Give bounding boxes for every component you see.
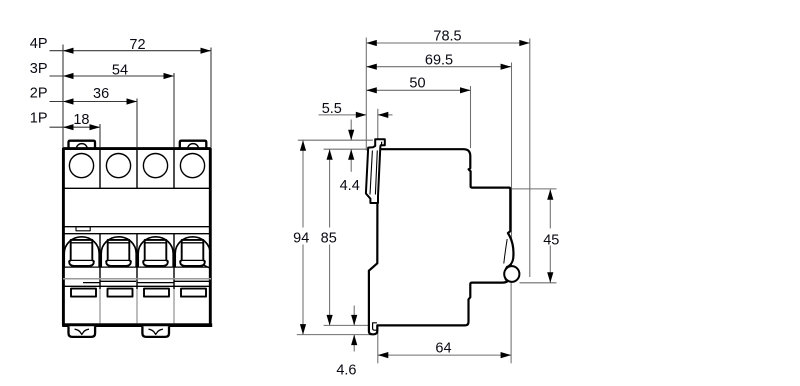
extension horizontal toggle top y=140.2 — [298, 139, 373, 141]
marking segment pole1 — [83, 282, 100, 284]
pole divider mid x=174 — [173, 234, 175, 289]
extension vertical toggle tip x=366.3 — [365, 38, 367, 151]
dim line 78.5 — [366, 42, 530, 44]
horizontal line label band bottom — [63, 233, 211, 235]
dim line 54 — [50, 75, 175, 77]
svg-text:4P: 4P — [30, 36, 48, 52]
DIN clip loop — [504, 266, 519, 282]
dim line 94 upper — [302, 140, 304, 227]
svg-text:36: 36 — [93, 86, 109, 102]
4.4 lower arrow line — [350, 149, 352, 172]
dim line 85 lower — [329, 245, 331, 326]
toggle arch pole4 — [175, 237, 210, 267]
terminal window pole1 — [71, 289, 96, 297]
dim line 45 lower — [549, 246, 551, 283]
top mounting clip left — [69, 141, 96, 149]
pole divider lower gray x=100 — [99, 289, 101, 325]
extension line x=174 (3P) — [173, 73, 175, 147]
horizontal line below circles — [63, 187, 211, 189]
front clip foot notch — [373, 323, 377, 330]
toggle handle pole1 — [69, 240, 94, 266]
svg-text:4.4: 4.4 — [340, 178, 360, 194]
svg-text:45: 45 — [543, 233, 559, 249]
extension vertical x=511.1 (69.5) — [511, 63, 513, 271]
bottom clip left — [69, 326, 96, 337]
gray band line — [63, 278, 211, 280]
extension horizontal 45 top y=188.9 — [512, 188, 557, 190]
svg-text:85: 85 — [321, 230, 337, 246]
extension horizontal body top y=149.2 — [324, 148, 377, 150]
svg-text:50: 50 — [409, 76, 425, 92]
dim line 85 upper — [329, 149, 331, 227]
terminal screw circle pole1 — [69, 154, 93, 178]
dim line 18 — [50, 126, 101, 128]
dim line 69.5 — [366, 66, 511, 68]
horizontal line label band top — [63, 226, 211, 228]
dim line 45 upper — [549, 189, 551, 228]
bottom clip right — [142, 326, 169, 337]
extension line x=137 (2P) — [136, 99, 138, 148]
svg-text:3P: 3P — [30, 61, 48, 77]
extension horizontal 45 bottom y=282.8 — [520, 282, 557, 284]
pole divider lower gray x=174 — [173, 289, 175, 325]
pole divider mid x=100 — [99, 234, 101, 289]
top mounting clip right — [180, 141, 207, 149]
marking segment pole3 — [138, 282, 175, 284]
label window — [76, 227, 90, 231]
toggle arch pole3 — [138, 237, 173, 267]
terminal screw circle pole4 — [180, 154, 204, 178]
extension vertical x=470.5 (50) — [470, 86, 472, 148]
terminal screw circle pole2 — [106, 154, 130, 178]
toggle handle pole2 — [106, 240, 131, 266]
dim line 72 — [50, 50, 212, 52]
dim line 36 — [50, 101, 138, 103]
breaker side body outline — [369, 149, 514, 334]
svg-text:18: 18 — [73, 112, 89, 128]
svg-text:94: 94 — [293, 230, 309, 246]
toggle handle pole3 — [143, 240, 168, 266]
pole divider upper x=137 — [136, 149, 138, 188]
4.6 upper arrow line — [353, 306, 355, 326]
svg-text:1P: 1P — [30, 110, 48, 126]
dim line 5.5 left tail — [319, 114, 367, 116]
svg-text:4.6: 4.6 — [336, 362, 356, 378]
terminal window pole3 — [144, 289, 169, 297]
pole divider upper x=100 — [99, 149, 101, 188]
4.4 upper arrow line — [350, 120, 352, 141]
breaker body outline — [63, 149, 210, 325]
svg-text:78.5: 78.5 — [433, 28, 461, 44]
svg-text:64: 64 — [435, 340, 451, 356]
terminal window pole4 — [181, 289, 206, 297]
dim line 94 lower — [302, 245, 304, 335]
extension vertical front face x=377.8 upper — [377, 109, 379, 158]
pole divider mid x=137 — [136, 234, 138, 289]
4.6 lower arrow line — [353, 335, 355, 352]
arrowheads side view — [366, 40, 377, 46]
pole divider upper x=174 — [173, 149, 175, 188]
right edge notch diagonal — [203, 250, 210, 268]
toggle inner line right — [375, 151, 377, 195]
extension horizontal body bottom y=325.4 — [324, 324, 369, 326]
extension vertical x=511.1 lower (64) — [510, 279, 512, 363]
toggle inner line left — [370, 151, 372, 195]
toggle hook inner notch — [381, 142, 383, 145]
svg-text:2P: 2P — [30, 86, 48, 102]
horizontal line above terminals — [63, 285, 211, 287]
extension vertical x=377.8 lower (64) — [377, 327, 379, 363]
toggle arch pole1 — [64, 237, 99, 267]
DIN clip spring slot line — [504, 239, 507, 264]
toggle side — [366, 139, 385, 203]
extension horizontal clip bottom y=334.6 — [297, 334, 371, 336]
extension line x=63 — [62, 45, 64, 148]
dim line 64 — [378, 354, 511, 356]
toggle handle pole4 — [180, 240, 205, 266]
dim line 5.5 right tail — [378, 114, 393, 116]
terminal screw circle pole3 — [143, 154, 167, 178]
body bottom edge heavy — [62, 323, 212, 327]
marking segment pole4 — [175, 280, 211, 282]
marking segment pole2 — [101, 280, 137, 282]
terminal window pole2 — [108, 289, 133, 297]
pole divider lower gray x=137 — [136, 289, 138, 325]
extension line x=211 (4P) — [210, 48, 212, 148]
dim line 50 — [366, 89, 470, 91]
svg-text:69.5: 69.5 — [425, 52, 453, 68]
toggle arch pole2 — [101, 237, 136, 267]
extension line x=100 (1P) — [99, 124, 101, 147]
extension vertical x=529.8 (78.5) — [529, 39, 531, 278]
horizontal line below handles — [63, 266, 211, 268]
